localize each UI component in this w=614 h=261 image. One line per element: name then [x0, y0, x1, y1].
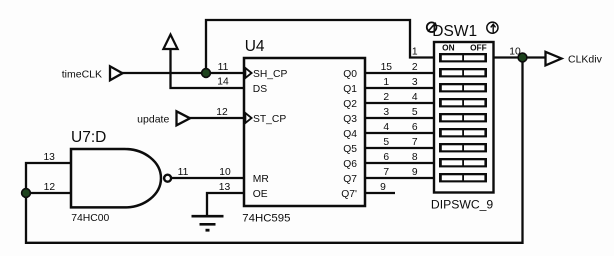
svg-text:SH_CP: SH_CP — [253, 69, 287, 80]
svg-text:U4: U4 — [245, 38, 265, 55]
svg-text:Q5: Q5 — [343, 144, 357, 155]
switch element 3 — [439, 83, 487, 92]
switch SW1 DIP body — [434, 42, 494, 193]
svg-text:6: 6 — [383, 152, 389, 163]
svg-text:Q6: Q6 — [343, 159, 357, 170]
switch element 1 — [439, 53, 487, 62]
label SW1 with marker circle — [427, 22, 477, 40]
svg-text:DSW1: DSW1 — [432, 23, 477, 40]
svg-text:7: 7 — [412, 137, 418, 148]
svg-text:Q7: Q7 — [343, 174, 357, 185]
svg-text:U7:D: U7:D — [71, 129, 106, 146]
wire: NAND inputs riser and feedback bottom wire — [26, 58, 523, 243]
svg-text:74HC00: 74HC00 — [71, 213, 109, 224]
wire: Q4 to DIP pin 6 — [365, 132, 434, 134]
pin ST_CP clock marker — [245, 113, 251, 123]
node: junction timeCLK/SH_CP net — [202, 69, 211, 78]
svg-text:timeCLK: timeCLK — [62, 69, 102, 81]
svg-text:2: 2 — [383, 92, 389, 103]
svg-text:13: 13 — [219, 182, 231, 193]
svg-text:ON: ON — [442, 43, 454, 53]
svg-text:14: 14 — [217, 77, 229, 88]
wire: net from SH_CP node up and across to DIP pin 1 — [206, 20, 434, 73]
svg-text:DIPSWC_9: DIPSWC_9 — [431, 197, 494, 211]
svg-text:12: 12 — [44, 182, 56, 193]
svg-text:Q4: Q4 — [343, 129, 357, 140]
IC U4 box — [244, 58, 365, 206]
node: junction NAND input feedback — [22, 189, 31, 198]
svg-text:DS: DS — [253, 84, 267, 95]
wire: Q7' stub — [365, 192, 395, 194]
wire: Q6 to DIP pin 8 — [365, 162, 434, 164]
wire: OE pin 13 to ground — [207, 193, 244, 216]
svg-text:12: 12 — [216, 107, 228, 118]
svg-text:1: 1 — [383, 77, 389, 88]
svg-text:4: 4 — [412, 92, 418, 103]
wire: Q0 to DIP pin 2 — [365, 72, 434, 74]
input port update — [137, 111, 190, 125]
svg-text:9: 9 — [412, 167, 418, 178]
svg-text:6: 6 — [412, 122, 418, 133]
svg-text:74HC595: 74HC595 — [242, 212, 290, 224]
svg-text:Q7': Q7' — [341, 189, 357, 200]
svg-text:ST_CP: ST_CP — [253, 114, 286, 125]
switch element 8 — [439, 158, 487, 167]
wire: Q3 to DIP pin 5 — [365, 117, 434, 119]
svg-text:2: 2 — [412, 62, 418, 73]
switch element 5 — [439, 113, 487, 122]
svg-text:MR: MR — [253, 174, 269, 185]
pin SH_CP clock marker — [245, 68, 251, 78]
svg-text:13: 13 — [43, 152, 55, 163]
svg-text:Q3: Q3 — [343, 114, 357, 125]
svg-text:11: 11 — [218, 62, 229, 73]
switch element 2 — [439, 68, 487, 77]
switch element 4 — [439, 98, 487, 107]
wire: Q2 to DIP pin 4 — [365, 102, 434, 104]
wire: update to ST_CP pin 12 — [190, 117, 245, 119]
svg-text:OE: OE — [253, 189, 268, 200]
input port timeCLK — [62, 66, 123, 80]
svg-text:9: 9 — [380, 182, 386, 193]
wire: timeCLK to SH_CP pin 11 — [122, 72, 244, 74]
svg-text:15: 15 — [381, 62, 393, 73]
svg-text:4: 4 — [383, 122, 389, 133]
wire: Q1 to DIP pin 3 — [365, 87, 434, 89]
svg-text:10: 10 — [509, 47, 521, 58]
svg-text:1: 1 — [412, 47, 418, 58]
svg-text:update: update — [137, 114, 169, 126]
svg-text:3: 3 — [383, 107, 389, 118]
wire: DIP common pin 10 to CLKdiv — [494, 56, 547, 58]
switch element 9 — [439, 173, 487, 182]
svg-text:Q0: Q0 — [343, 69, 357, 80]
svg-text:10: 10 — [219, 167, 231, 178]
svg-text:OFF: OFF — [470, 43, 487, 53]
wire: Q7 to DIP pin 9 — [365, 177, 434, 179]
svg-text:CLKdiv: CLKdiv — [568, 53, 603, 65]
power symbol VCC arrow — [163, 35, 177, 50]
switch element 7 — [439, 143, 487, 152]
output port CLKdiv — [546, 52, 603, 66]
svg-text:11: 11 — [178, 167, 189, 178]
wire: Q5 to DIP pin 7 — [365, 147, 434, 149]
svg-text:Q2: Q2 — [343, 99, 357, 110]
wire: NAND output pin 11 to MR pin 10 — [172, 177, 245, 179]
svg-text:Q1: Q1 — [343, 84, 357, 95]
wire: NAND input pin 12 — [26, 192, 71, 194]
svg-text:3: 3 — [412, 77, 418, 88]
marker: circled up arrow — [487, 22, 498, 33]
switch element 6 — [439, 128, 487, 137]
ground — [192, 216, 224, 230]
node: junction CLKdiv feedback — [518, 53, 527, 62]
svg-text:8: 8 — [412, 152, 418, 163]
op... NAND gate U7:D body — [71, 149, 171, 207]
wire: power arrow stem down to DS pin 14 — [171, 49, 245, 88]
svg-text:5: 5 — [383, 137, 389, 148]
svg-text:7: 7 — [383, 167, 389, 178]
svg-text:5: 5 — [412, 107, 418, 118]
